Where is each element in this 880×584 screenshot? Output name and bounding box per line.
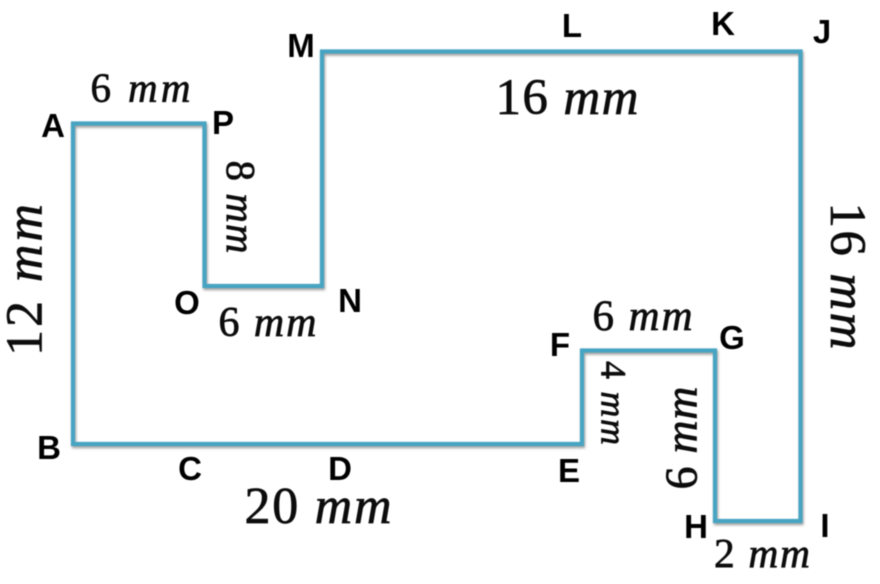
svg-text:C: C [178,450,202,487]
svg-text:K: K [711,5,735,42]
svg-text:A: A [41,107,65,144]
svg-text:N: N [338,282,362,319]
svg-text:B: B [37,429,61,466]
svg-text:F: F [550,326,570,363]
svg-text:O: O [174,284,200,321]
svg-text:H: H [684,508,708,545]
svg-text:G: G [719,319,745,356]
svg-text:E: E [558,452,580,489]
svg-text:6 mm: 6 mm [91,65,191,111]
svg-text:16 mm: 16 mm [496,70,639,126]
svg-text:20 mm: 20 mm [245,478,392,535]
svg-text:L: L [562,7,582,44]
svg-text:16 mm: 16 mm [819,203,875,350]
svg-text:6 mm: 6 mm [219,300,317,346]
svg-text:12 mm: 12 mm [0,204,54,356]
svg-text:M: M [287,27,315,64]
svg-text:P: P [212,104,234,141]
svg-text:6 mm: 6 mm [656,387,707,490]
svg-text:I: I [820,507,829,544]
svg-text:J: J [813,13,831,50]
svg-text:6 mm: 6 mm [593,293,693,340]
svg-text:2 mm: 2 mm [714,530,810,576]
svg-text:8 mm: 8 mm [218,161,264,254]
svg-text:4 mm: 4 mm [594,361,634,445]
